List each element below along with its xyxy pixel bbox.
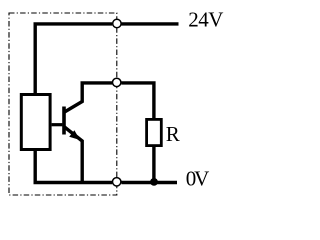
- svg-text:24V: 24V: [188, 8, 223, 32]
- wire: resistor bottom to 0V rail: [152, 146, 155, 183]
- terminal: 24V supply (open circle): [113, 19, 121, 27]
- transistor Q1 base bar: [62, 107, 66, 135]
- transistor Q1 emitter arrowhead: [69, 130, 80, 140]
- wire: 24V rail: [122, 22, 179, 25]
- svg-text:R: R: [166, 122, 180, 146]
- junction dot: [150, 178, 158, 186]
- wire: 0V rail: [121, 181, 177, 184]
- wire: output terminal to resistor top: [121, 83, 153, 119]
- wire: sensor element bottom to 0V terminal: [35, 151, 112, 183]
- resistor R: [147, 119, 162, 145]
- sensor enclosure (dash-dot boundary): [9, 13, 117, 195]
- transistor Q1 emitter path to 0V rail: [65, 127, 83, 183]
- label: R: [166, 122, 180, 146]
- wire: sensor element top to 24V terminal: [35, 24, 112, 93]
- wire: base lead: [52, 123, 63, 126]
- svg-text:0V: 0V: [186, 167, 209, 191]
- label: 24V: [188, 8, 223, 32]
- transistor Q1 collector path to output terminal: [65, 83, 113, 112]
- sensor element (rectangle): [21, 95, 50, 150]
- terminal: 0V (open circle): [113, 178, 121, 186]
- terminal: output (open circle): [113, 78, 121, 86]
- label: 0V: [186, 167, 209, 191]
